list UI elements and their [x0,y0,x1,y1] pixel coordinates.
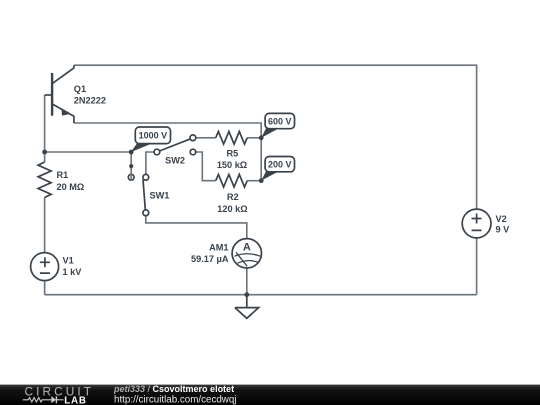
svg-text:peti333 / Csovoltmero elotet: peti333 / Csovoltmero elotet [113,384,234,394]
svg-text:9 V: 9 V [496,225,511,235]
svg-text:SW2: SW2 [165,156,185,166]
svg-text:V2: V2 [496,214,507,224]
svg-text:600 V: 600 V [268,116,292,126]
svg-text:150 kΩ: 150 kΩ [217,160,247,170]
svg-text:A: A [243,242,251,254]
svg-text:SW1: SW1 [149,191,169,201]
svg-text:Q1: Q1 [74,84,86,94]
svg-text:LAB: LAB [64,395,87,405]
svg-text:R2: R2 [227,192,239,202]
svg-text:R1: R1 [57,170,69,180]
svg-text:R5: R5 [227,149,239,159]
svg-text:20 MΩ: 20 MΩ [57,182,85,192]
svg-text:http://circuitlab.com/cecdwqj: http://circuitlab.com/cecdwqj [114,394,237,405]
svg-text:1000 V: 1000 V [139,131,168,141]
svg-text:1 kV: 1 kV [63,267,83,277]
svg-text:AM1: AM1 [209,242,228,252]
svg-text:200 V: 200 V [268,160,292,170]
svg-text:2N2222: 2N2222 [74,95,106,105]
svg-text:59.17 µA: 59.17 µA [191,254,229,264]
svg-text:120 kΩ: 120 kΩ [217,204,247,214]
svg-text:V1: V1 [63,256,74,266]
